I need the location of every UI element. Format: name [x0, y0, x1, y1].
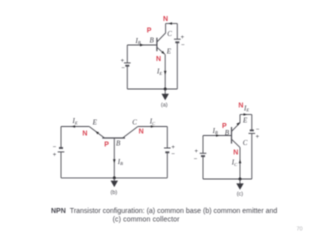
battery V5 (c left) plate - short	[201, 155, 205, 157]
svg-text:C: C	[167, 30, 172, 38]
svg-text:IC: IC	[231, 159, 238, 167]
ground (c) stub	[239, 179, 241, 184]
svg-text:P: P	[104, 141, 109, 148]
battery V3 (b left) plate - short top	[59, 147, 63, 149]
svg-text:+: +	[195, 149, 199, 155]
transistor Q2 base bar	[102, 137, 125, 139]
wire: (c) right vertical lower	[251, 134, 253, 179]
svg-text:(b): (b)	[111, 190, 118, 196]
wire: (b) base lead vertical	[113, 138, 115, 178]
svg-text:+: +	[171, 145, 175, 151]
arrow IB (c) pointing right	[216, 134, 220, 137]
svg-text:Transistor configuration: (a): Transistor configuration: (a) common bas…	[70, 208, 278, 215]
wire: (b) left vertical upper	[60, 127, 62, 148]
wire: (c) base lead horizontal	[203, 135, 231, 137]
battery V6 (c right) plate + long bottom	[249, 132, 256, 134]
arrow IC top (a) pointing left	[168, 22, 172, 25]
svg-text:IE: IE	[72, 117, 78, 125]
svg-text:IE: IE	[243, 104, 249, 112]
ground (b) triangle	[111, 181, 118, 188]
arrow IC (b) pointing right	[151, 125, 155, 128]
transistor Q2 emitter lead	[89, 127, 104, 139]
wire: (a) top wire	[166, 23, 178, 25]
wire: (c) left vertical upper	[202, 136, 204, 154]
svg-text:−: −	[121, 66, 125, 72]
svg-text:(c) common collector: (c) common collector	[113, 216, 181, 223]
svg-text:E: E	[242, 116, 248, 124]
battery V1 (a left) plate - short	[125, 65, 129, 67]
transistor Q3 base bar	[231, 127, 233, 144]
svg-text:NPN: NPN	[51, 208, 66, 215]
battery V1 (a left) plate + long	[124, 62, 131, 64]
svg-text:E: E	[166, 48, 172, 56]
ground (a) triangle	[162, 94, 169, 101]
svg-text:+: +	[121, 58, 125, 64]
transistor Q3 collector lead	[232, 139, 241, 147]
svg-text:N: N	[156, 56, 161, 63]
svg-text:IB: IB	[135, 37, 141, 45]
svg-text:N: N	[82, 131, 87, 138]
svg-text:−: −	[181, 43, 185, 49]
svg-text:−: −	[194, 156, 198, 162]
transistor Q1 emitter lead	[157, 47, 165, 54]
battery V2 (a right) plate + long	[174, 38, 181, 40]
transistor Q2 collector lead	[123, 127, 138, 138]
battery V6 (c right) plate - short top	[250, 129, 254, 131]
transistor Q1 collector lead	[157, 24, 166, 43]
Q1 emitter arrowhead	[161, 51, 164, 54]
wire: (b) bottom wire	[61, 177, 167, 179]
arrow IE top (c) pointing right	[244, 113, 248, 116]
svg-text:+: +	[53, 153, 57, 159]
node: (b) base-ground junction	[113, 176, 116, 179]
svg-text:IB: IB	[117, 158, 123, 166]
ground (b) stub	[113, 178, 115, 181]
wire: (a) right vertical upper	[176, 24, 178, 39]
arrow IB (b) down	[113, 159, 116, 163]
wire: (a) base lead horizontal	[127, 44, 156, 46]
svg-text:N: N	[238, 103, 243, 110]
svg-text:−: −	[171, 152, 175, 158]
svg-text:E: E	[92, 119, 98, 127]
ground (a) stub	[164, 89, 166, 94]
wire: (b) top-left wire	[61, 126, 89, 128]
svg-text:IE: IE	[156, 68, 162, 76]
arrow IE (b) pointing left	[71, 125, 75, 128]
wire: (a) left vertical lower	[126, 66, 128, 89]
wire: (a) left vertical upper	[126, 45, 128, 63]
svg-text:IB: IB	[212, 127, 218, 135]
transistor Q1 base bar	[156, 38, 158, 52]
battery V2 (a right) plate - short	[175, 41, 179, 43]
svg-text:C: C	[132, 119, 137, 127]
battery V5 (c left) plate + long	[200, 152, 207, 154]
Q2 emitter arrowhead	[96, 131, 99, 134]
wire: (a) emitter vertical	[164, 54, 166, 89]
arrow IC (c) up	[239, 159, 242, 163]
transistor Q3 emitter lead	[232, 115, 241, 132]
svg-text:C: C	[243, 139, 248, 147]
svg-text:B: B	[225, 129, 230, 137]
svg-text:B: B	[150, 36, 155, 44]
svg-text:+: +	[256, 134, 260, 140]
wire: (b) right vertical upper	[166, 127, 168, 148]
arrow IB (a)	[140, 44, 144, 47]
svg-text:(c): (c)	[237, 192, 244, 198]
node: (c) collector-ground junction	[239, 178, 242, 181]
svg-text:(a): (a)	[161, 102, 168, 108]
svg-text:−: −	[256, 127, 260, 133]
svg-text:B: B	[116, 140, 121, 148]
wire: (c) left vertical lower	[202, 157, 204, 180]
wire: (a) bottom wire	[127, 88, 177, 90]
svg-text:N: N	[233, 149, 238, 156]
wire: (b) left vertical lower	[60, 152, 62, 178]
wire: (b) right vertical lower	[166, 153, 168, 178]
wire: (c) bottom wire	[203, 178, 252, 180]
svg-text:+: +	[181, 35, 185, 41]
wire: (a) right vertical lower	[176, 43, 178, 89]
Q3 emitter arrowhead	[236, 122, 239, 125]
svg-text:70: 70	[297, 227, 303, 233]
arrow IE (a) down	[164, 71, 167, 75]
wire: (b) top-right wire	[138, 126, 168, 128]
svg-text:P: P	[147, 28, 152, 35]
svg-text:N: N	[139, 129, 144, 136]
node: (a) emitter-ground junction	[164, 88, 167, 91]
wire: (c) right vertical upper	[251, 115, 253, 131]
battery V3 (b left) plate + long bottom	[58, 151, 65, 153]
wire: (c) collector vertical	[239, 147, 241, 179]
svg-text:−: −	[53, 145, 57, 151]
wire: (c) top wire	[240, 114, 252, 116]
svg-text:N: N	[163, 16, 168, 23]
ground (c) triangle	[236, 183, 243, 189]
svg-text:IC: IC	[149, 118, 156, 126]
battery V4 (b right) plate - short bottom	[165, 151, 169, 153]
battery V4 (b right) plate + long top	[164, 147, 171, 149]
